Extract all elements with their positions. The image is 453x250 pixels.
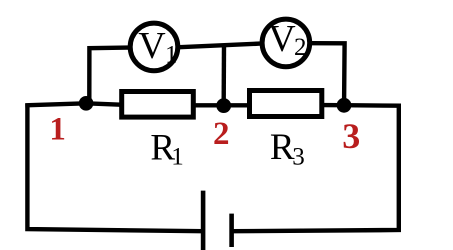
wire: left wall top corner through node 1 to resistor R1 xyxy=(25,103,120,105)
wire: V1 right to V2 left xyxy=(180,44,261,48)
svg-text:3: 3 xyxy=(292,144,305,171)
svg-text:2: 2 xyxy=(213,116,230,152)
voltmeter V1: circle xyxy=(130,23,178,71)
resistor R1: body xyxy=(122,92,194,118)
svg-text:1: 1 xyxy=(49,112,66,148)
svg-text:1: 1 xyxy=(171,143,184,170)
node 3: junction dot xyxy=(337,98,352,113)
wire: V2 right, corner, down to node 3 xyxy=(312,43,345,100)
battery: short plate (right) xyxy=(229,214,234,247)
wire: junction stub from top wire down to node 2 xyxy=(221,45,226,100)
svg-text:1: 1 xyxy=(165,42,178,69)
svg-text:2: 2 xyxy=(294,34,307,61)
svg-text:R: R xyxy=(270,127,295,168)
svg-text:V: V xyxy=(268,18,296,60)
svg-text:V: V xyxy=(138,25,166,67)
resistor R3: body xyxy=(250,91,322,117)
svg-text:3: 3 xyxy=(342,116,360,156)
voltmeter V2: circle xyxy=(262,19,310,67)
wire: R1 right through node 2 to R3 left xyxy=(194,103,249,107)
wire: left wall down and bottom-left to battery xyxy=(27,104,203,232)
wire: top-left stub from node 1 up and right to voltmeter V1 xyxy=(89,48,128,105)
node 2: junction dot xyxy=(216,98,231,113)
node 1: junction dot xyxy=(79,96,94,111)
battery: long plate (left) xyxy=(201,191,206,250)
wire: R3 right through node 3, right corner, down right wall, bottom-right to battery xyxy=(233,105,399,231)
